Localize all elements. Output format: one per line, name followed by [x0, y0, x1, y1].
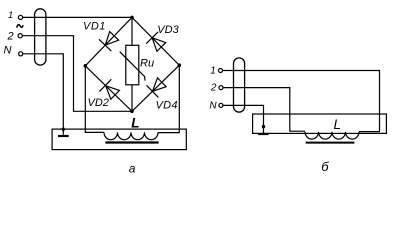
terminal 1 circle (b) [219, 69, 223, 73]
wire 2 to bridge bottom node [22, 36, 132, 112]
connector capsule (b) [234, 58, 245, 112]
terminal N circle (b) [219, 103, 223, 107]
wire right node down to coil [158, 65, 179, 132]
svg-text:VD2: VD2 [88, 97, 109, 109]
resistor top lead wire [131, 17, 133, 45]
ground bar (b) [258, 133, 268, 135]
workpiece plate box (fig a) [52, 129, 186, 150]
junction dot on N drop (b) [262, 125, 265, 128]
wire left node down to coil [85, 66, 104, 133]
resistor Ru body [126, 45, 139, 85]
diode VD4 [147, 78, 167, 98]
wire 1 (b) [223, 71, 380, 132]
node top [130, 16, 134, 20]
svg-text:N: N [4, 45, 12, 57]
svg-text:а: а [129, 162, 136, 176]
svg-text:Ru: Ru [140, 58, 154, 70]
wire N (b) [223, 105, 264, 133]
svg-text:1: 1 [210, 66, 216, 77]
connector capsule [35, 9, 46, 65]
node right [178, 63, 182, 67]
svg-text:2: 2 [210, 83, 217, 94]
svg-text:VD3: VD3 [157, 24, 179, 36]
svg-text:L: L [334, 117, 342, 132]
junction dot N wire on plate [62, 128, 65, 131]
terminal 2 circle [18, 34, 22, 38]
wire 2 (b) [223, 88, 305, 132]
node bottom [130, 110, 134, 114]
svg-text:2: 2 [7, 31, 14, 43]
diode VD1 [99, 32, 119, 51]
svg-text:1: 1 [8, 10, 13, 21]
svg-text:VD1: VD1 [83, 21, 106, 33]
inductor L core bar (fig b) [306, 142, 355, 144]
svg-text:VD4: VD4 [156, 100, 178, 112]
tilde AC mark [17, 25, 23, 28]
plate box (b) [253, 114, 387, 133]
node left [84, 64, 88, 68]
wire 1 to bridge top node [23, 16, 132, 18]
diode VD3 [146, 32, 166, 52]
resistor Ru adjustment diagonal [120, 52, 145, 81]
inductor L coil (fig a) [104, 132, 158, 139]
terminal 1 circle [18, 15, 22, 19]
svg-text:L: L [131, 116, 139, 131]
svg-text:б: б [321, 159, 329, 174]
ground bar (fig a) [58, 135, 69, 137]
bridge diamond wires [85, 17, 179, 111]
terminal N circle [19, 52, 23, 56]
inductor L core bar (fig a) [105, 141, 158, 143]
svg-text:N: N [209, 100, 217, 111]
terminal 2 circle (b) [219, 86, 223, 90]
wire N to grounded plate [23, 54, 63, 135]
inductor L coil (fig b) [305, 132, 359, 139]
resistor bottom lead wire [131, 85, 133, 112]
diode VD2 [100, 79, 120, 99]
